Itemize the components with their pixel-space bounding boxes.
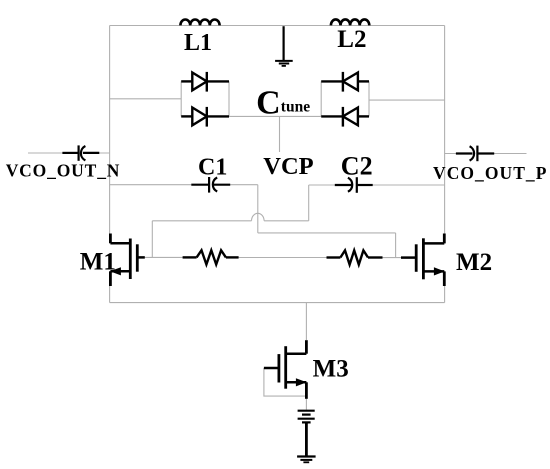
wire M1 gate to resistor [145,256,184,258]
varactor diode D4 (right pair, bottom) [321,107,369,127]
svg-text:C1: C1 [198,155,227,181]
wire bottom rail [110,302,445,304]
wire left varactor box edges [181,81,229,116]
wire cross-couple B horizontal [258,232,396,234]
transistor M1 source arrow [110,267,121,275]
wire cross-couple B vertical to M2 gate [395,233,397,258]
varactor diode D2 (left pair, bottom) [181,107,229,127]
resistor R2 (right) [327,250,383,264]
capacitor output P [456,146,494,162]
transistor M3 source arrow [296,378,307,386]
svg-text:C: C [256,84,281,121]
wire M2 source to rail [444,286,446,303]
inductor L1 [180,20,219,26]
svg-text:M1: M1 [80,249,116,276]
resistor R1 (left) [183,250,239,264]
capacitor C2 [335,177,373,193]
svg-text:M2: M2 [456,249,492,276]
wire C2 right [372,184,445,186]
battery / bias source below M3 [298,411,315,423]
node VCP drop wire [279,116,281,152]
wire left varactor feed [110,98,182,100]
wire cross-couple B vertical from C1 [257,185,259,233]
varactor diode D1 (left pair, top) [181,72,229,92]
transistor M3 [264,340,307,399]
wire resistor to M2 gate [382,257,401,259]
transistor M1 [110,234,144,287]
ground (top, below VDD rail) [275,26,293,66]
svg-text:VCO_OUT_P: VCO_OUT_P [433,163,547,183]
svg-text:tune: tune [281,98,310,115]
svg-text:L1: L1 [184,30,212,56]
svg-text:L2: L2 [337,26,366,53]
wire M3 source to battery [305,396,307,410]
inductor L2 [331,19,369,25]
wire C1 right [230,184,258,186]
wire battery to ground [305,424,308,456]
wire varactor bottom link [229,115,321,117]
wire cross-couple A vertical to C2 [308,185,310,221]
wire out_n stubs [28,152,110,154]
capacitor output N [62,145,99,160]
wire right rail [444,26,446,234]
ground (bottom) [297,457,316,463]
capacitor C1 [191,177,230,193]
wire right varactor box edges [321,81,369,116]
wire hop crossover [252,213,265,221]
wire C1 left [110,184,192,186]
wire M3 gate tie [264,368,307,396]
transistor M2 [401,234,444,287]
wire M3 drain feed [305,303,307,341]
wire between resistors [238,257,327,259]
wire top rail [110,25,445,27]
wire M1 source to rail [109,286,111,303]
svg-text:VCO_OUT_N: VCO_OUT_N [6,161,121,181]
svg-text:M3: M3 [313,356,349,383]
varactor diode D3 (right pair, top) [321,72,369,92]
wire left rail [109,26,111,234]
wire cross-couple A vertical to M1 gate [151,221,153,258]
wire C2 left [309,184,336,186]
transistor M2 source arrow [434,267,445,275]
wire out_p stubs [445,153,527,155]
wire cross-couple A horizontal [152,220,308,222]
wire right varactor feed [369,99,445,101]
svg-text:C2: C2 [341,151,373,180]
svg-text:VCP: VCP [263,153,313,180]
